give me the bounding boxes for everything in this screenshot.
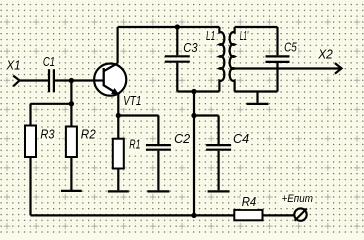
resistor R2 <box>66 127 77 158</box>
inductor L1' secondary winding <box>230 27 235 92</box>
capacitor C1 <box>49 69 54 92</box>
svg-text:X2: X2 <box>317 48 333 62</box>
capacitor C5 bottom lead <box>276 63 278 92</box>
wire junction drop to R2 <box>70 81 72 127</box>
resistor R4 <box>234 210 262 220</box>
svg-text:C3: C3 <box>183 41 197 55</box>
svg-text:L1': L1' <box>240 29 249 43</box>
wire C1 to base <box>55 79 93 81</box>
capacitor C4 plates <box>206 145 231 150</box>
wire tank to rail vertical <box>193 92 195 216</box>
ground bar under C4 <box>208 190 230 192</box>
wire branch to R3 <box>31 104 72 126</box>
capacitor C3 plates <box>165 56 190 61</box>
wire R1 top lead <box>117 116 119 139</box>
svg-text:X1: X1 <box>5 59 20 73</box>
svg-text:R1: R1 <box>129 137 140 151</box>
wire tank bottom <box>177 90 219 92</box>
capacitor C2 bottom lead <box>157 151 159 191</box>
collector lead up <box>116 27 118 63</box>
svg-text:C5: C5 <box>284 41 297 55</box>
svg-text:R2: R2 <box>81 127 96 141</box>
svg-text:C1: C1 <box>43 55 55 69</box>
svg-text:R3: R3 <box>40 127 54 141</box>
connector X2 arrowhead <box>335 63 342 74</box>
connector X1 input arrow <box>13 76 19 87</box>
svg-text:C4: C4 <box>233 132 249 146</box>
svg-text:+Eпит: +Eпит <box>282 193 313 205</box>
wire R4 to terminal <box>263 214 294 216</box>
wire X1 to C1 <box>20 79 49 81</box>
wire top rail <box>118 26 220 28</box>
wire secondary bottom <box>235 90 278 92</box>
ground stub under secondary <box>256 92 258 103</box>
capacitor C5 plates <box>266 56 290 62</box>
svg-text:R4: R4 <box>242 195 257 209</box>
wire X2 output tap <box>231 67 341 69</box>
node R3/R2 junction <box>69 101 74 106</box>
node emitter junction <box>116 113 121 118</box>
wire R3 bottom to rail <box>29 157 31 216</box>
svg-text:L1: L1 <box>206 29 215 43</box>
svg-text:C2: C2 <box>174 132 190 146</box>
ground bar under C2 <box>147 190 169 192</box>
transistor VT1 <box>93 27 127 116</box>
wire bottom rail <box>31 214 235 216</box>
collector stroke <box>104 63 118 71</box>
resistor R3 <box>25 126 36 158</box>
ground bar under R1 <box>108 190 129 192</box>
wire secondary top to C5 <box>235 27 278 55</box>
svg-text:VT1: VT1 <box>123 94 141 108</box>
node tank bottom junction <box>191 89 196 94</box>
wire R1 bottom to ground <box>117 169 119 191</box>
inductor L1 primary winding <box>219 27 224 92</box>
base wire into circle <box>93 79 103 81</box>
label halos <box>4 30 334 209</box>
terminal +Epit circle <box>294 208 307 220</box>
capacitor C3 leads <box>176 27 178 92</box>
resistor R1 <box>113 139 124 169</box>
wire emitter node to C2 <box>118 116 158 145</box>
ground bar under secondary <box>247 103 269 105</box>
wire C4 branch <box>194 116 219 145</box>
node top rail C3 junction <box>175 24 180 29</box>
ground bar under R2 <box>61 190 82 192</box>
capacitor C4 bottom lead <box>218 151 220 191</box>
emitter lead down <box>117 94 119 116</box>
emitter stroke <box>104 85 118 94</box>
capacitor C2 plates <box>146 145 171 150</box>
emitter arrowhead <box>112 89 119 95</box>
node C4 branch junction <box>191 113 196 118</box>
node bottom rail junction <box>191 213 196 218</box>
wire R2 bottom to ground <box>70 157 72 190</box>
base bar <box>103 68 105 86</box>
node base/C1 junction <box>69 78 74 83</box>
